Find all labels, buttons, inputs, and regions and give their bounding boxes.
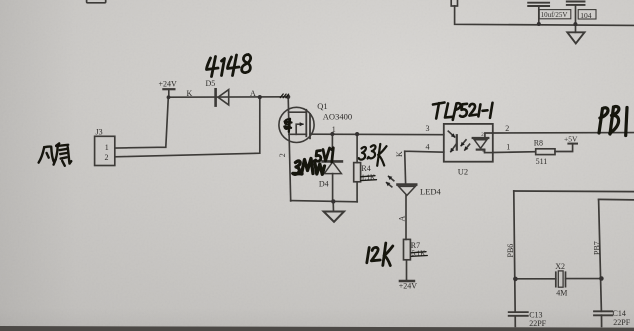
svg-text:D4: D4: [319, 179, 329, 188]
svg-text:1: 1: [105, 143, 109, 152]
svg-text:C13: C13: [529, 310, 542, 319]
svg-text:LED4: LED4: [420, 187, 442, 197]
svg-text:Q1: Q1: [317, 101, 327, 111]
svg-text:1: 1: [506, 143, 510, 152]
svg-text:+24V: +24V: [399, 281, 418, 290]
svg-text:3: 3: [426, 124, 430, 133]
svg-text:104: 104: [580, 11, 592, 20]
svg-text:PB7: PB7: [593, 241, 602, 255]
svg-text:22PF: 22PF: [613, 318, 630, 327]
svg-text:J3: J3: [96, 127, 103, 136]
svg-text:U2: U2: [458, 166, 468, 176]
svg-text:+5V: +5V: [564, 134, 578, 143]
svg-text:2: 2: [505, 124, 509, 133]
svg-text:1: 1: [332, 125, 336, 134]
svg-text:PB6: PB6: [506, 244, 515, 258]
svg-text:2: 2: [105, 153, 109, 162]
svg-text:K: K: [395, 151, 404, 157]
svg-text:D5: D5: [206, 79, 216, 88]
svg-text:4M: 4M: [556, 288, 567, 297]
svg-text:+24V: +24V: [159, 80, 178, 89]
svg-text:AO3400: AO3400: [323, 111, 352, 121]
svg-text:511: 511: [536, 157, 548, 166]
svg-text:2: 2: [278, 153, 287, 157]
svg-text:K: K: [187, 89, 193, 98]
svg-text:4: 4: [426, 143, 430, 152]
svg-text:10uf/25V: 10uf/25V: [541, 11, 568, 19]
svg-text:A: A: [250, 89, 256, 98]
svg-text:X2: X2: [555, 262, 565, 271]
svg-text:R4: R4: [361, 164, 370, 173]
svg-text:R8: R8: [534, 139, 543, 148]
svg-text:22PF: 22PF: [529, 319, 546, 328]
svg-text:A: A: [397, 216, 406, 222]
svg-text:C14: C14: [613, 309, 626, 318]
